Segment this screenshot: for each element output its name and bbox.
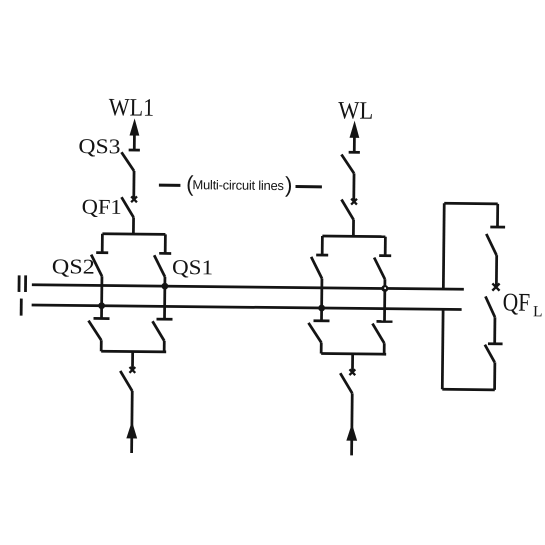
svg-text:WL1: WL1 [109, 94, 155, 121]
svg-text:): ) [285, 172, 293, 197]
svg-text:QS2: QS2 [52, 254, 95, 278]
svg-text:QS3: QS3 [78, 134, 120, 158]
svg-text:WL: WL [338, 97, 373, 124]
svg-text:QF: QF [503, 287, 531, 316]
svg-text:QS1: QS1 [172, 255, 213, 279]
svg-text:L: L [533, 303, 543, 320]
svg-text:Multi-circuit lines: Multi-circuit lines [192, 177, 284, 193]
svg-text:QF1: QF1 [82, 194, 122, 218]
